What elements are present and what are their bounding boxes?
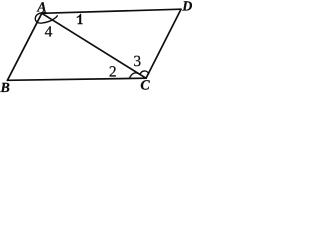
- svg-text:4: 4: [45, 24, 53, 41]
- side CD: [146, 9, 181, 78]
- svg-text:C: C: [140, 79, 150, 93]
- svg-text:2: 2: [109, 64, 117, 81]
- angle 2 arc at C: [129, 73, 140, 78]
- angle arc at A (spans angles 4 and 1): [35, 13, 57, 24]
- svg-text:A: A: [36, 0, 46, 15]
- svg-text:D: D: [181, 0, 192, 14]
- angle 3 arc at C: [140, 71, 148, 75]
- diagonal AC: [42, 13, 146, 78]
- side AD: [42, 9, 181, 13]
- side AB: [7, 13, 41, 80]
- side BC: [7, 78, 146, 80]
- svg-text:3: 3: [133, 53, 141, 70]
- angle label 1: [77, 14, 83, 25]
- svg-text:B: B: [0, 81, 10, 93]
